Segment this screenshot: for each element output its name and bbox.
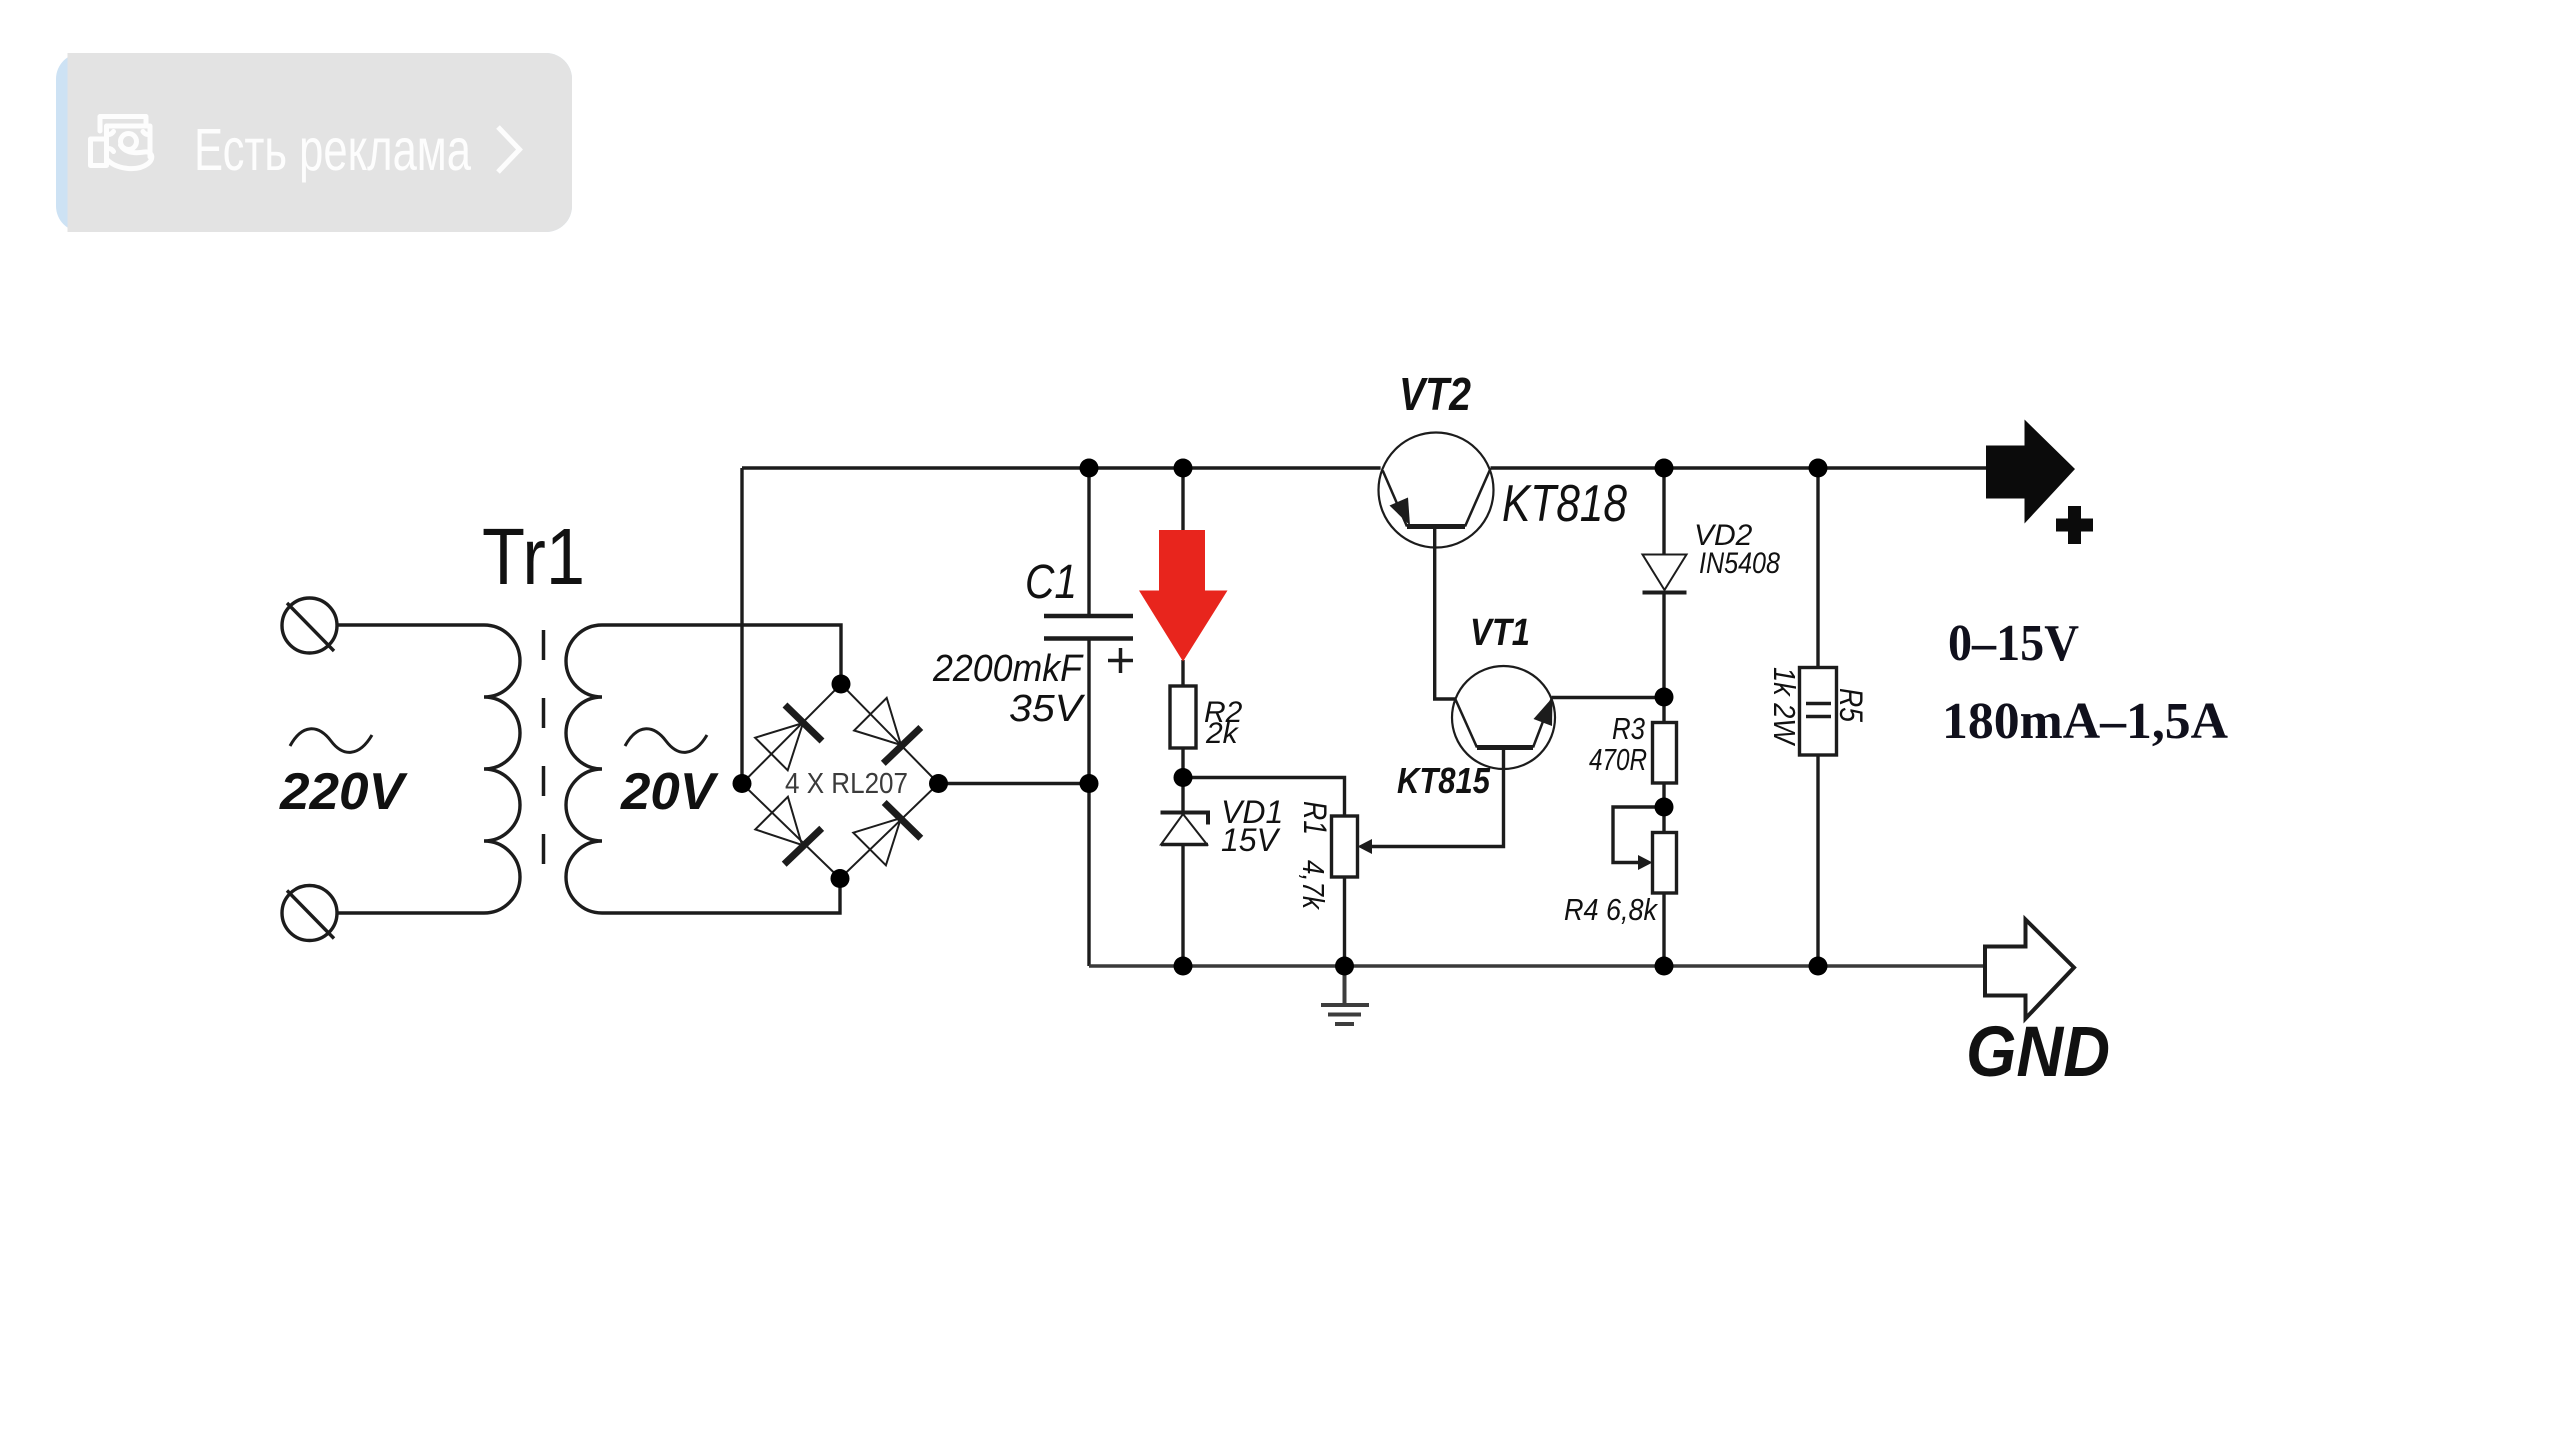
output GND arrow — [1985, 920, 2074, 1019]
tilde secondary — [625, 729, 707, 753]
terminal X2 bottom-left — [282, 886, 337, 941]
zener diode VD1 — [1161, 813, 1209, 845]
transistor VT1 circle — [1452, 666, 1555, 769]
svg-text:R5: R5 — [1833, 688, 1869, 722]
svg-text:R1: R1 — [1297, 801, 1333, 835]
bridge rectifier diamond — [742, 684, 939, 879]
VT2 collector diagonal — [1465, 469, 1490, 527]
svg-text:Tr1: Tr1 — [482, 512, 585, 601]
svg-text:VT2: VT2 — [1399, 368, 1471, 420]
wire top rail to red arrow — [1181, 468, 1184, 531]
svg-text:2k: 2k — [1205, 717, 1240, 750]
VT2 base bar — [1407, 524, 1465, 529]
svg-text:Есть реклама: Есть реклама — [194, 117, 471, 183]
wire R4 to ground rail — [1662, 893, 1665, 966]
transformer Tr1 secondary winding — [566, 625, 602, 913]
bridge diode D1 top-left — [755, 705, 822, 770]
svg-text:20V: 20V — [620, 763, 719, 821]
R4 wiper arrow — [1638, 855, 1653, 870]
VT2 emitter diagonal — [1383, 471, 1407, 527]
plus sign — [2056, 506, 2093, 544]
wire C1 top lead — [1087, 468, 1090, 616]
wire R1 wiper to VT1 base — [1372, 750, 1504, 847]
svg-text:470R: 470R — [1589, 742, 1647, 777]
ad banner money-in-hand icon — [91, 117, 152, 169]
tilde primary — [290, 729, 372, 753]
ad banner chevron — [498, 127, 520, 172]
svg-text:4 X RL207: 4 X RL207 — [785, 768, 908, 800]
wire R5 to ground rail — [1816, 755, 1819, 966]
svg-text:220V: 220V — [279, 763, 408, 821]
wire VD2 to node — [1662, 593, 1665, 723]
svg-text:C1: C1 — [1025, 556, 1077, 609]
wire top rail to VD2 — [1662, 468, 1665, 554]
bridge diode D2 top-right — [854, 698, 921, 763]
potentiometer R1 — [1332, 816, 1358, 877]
VT1 collector diagonal — [1455, 699, 1477, 747]
svg-text:KT815: KT815 — [1397, 760, 1491, 801]
wire primary top — [337, 623, 484, 626]
svg-text:2200mkF: 2200mkF — [932, 648, 1084, 690]
R1 wiper arrow — [1358, 839, 1373, 854]
capacitor C1 plates — [1044, 616, 1133, 639]
diode VD2 — [1643, 555, 1687, 593]
bridge diode D3 bottom-left — [755, 797, 821, 864]
transistor VT2 circle — [1379, 433, 1494, 548]
wire VD1 to ground rail — [1181, 845, 1184, 966]
svg-text:GND: GND — [1966, 1013, 2110, 1092]
wire VT1 emitter to VD2 node — [1552, 696, 1664, 699]
resistor R5 — [1800, 668, 1837, 756]
resistor R2 — [1170, 686, 1196, 748]
svg-text:4,7k: 4,7k — [1296, 860, 1331, 910]
wire DC+ riser to top rail — [740, 468, 743, 784]
svg-text:15V: 15V — [1221, 822, 1281, 858]
transformer core — [542, 630, 546, 899]
VT2 emitter arrow — [1390, 498, 1411, 526]
svg-text:VT1: VT1 — [1470, 612, 1530, 654]
wire red arrow tip to R2 — [1181, 660, 1184, 686]
VT1 emitter diagonal — [1533, 699, 1552, 748]
wire R2 to VD1 node — [1181, 748, 1184, 812]
wire R1 bottom to ground rail — [1343, 877, 1346, 966]
wire bridge right output — [939, 782, 1090, 785]
wire VT2 base to VT1 — [1435, 529, 1456, 699]
wire secondary top to bridge — [602, 625, 841, 684]
wire primary bottom — [337, 911, 484, 914]
R4 wiper loop — [1613, 807, 1664, 863]
svg-text:R3: R3 — [1612, 711, 1645, 746]
wire top rail right — [1491, 466, 1987, 469]
ground symbol — [1321, 966, 1369, 1024]
svg-text:0–15V: 0–15V — [1948, 615, 2079, 672]
junction dots — [733, 459, 1828, 976]
wire secondary bottom to bridge — [602, 879, 840, 914]
bridge diode D4 bottom-right — [853, 803, 921, 866]
VT1 emitter arrow — [1534, 698, 1553, 727]
output plus arrow — [1986, 420, 2075, 524]
potentiometer R4 — [1653, 833, 1677, 894]
wire C1 bottom lead — [1087, 639, 1090, 967]
VT1 base bar — [1477, 745, 1533, 750]
wire R3 to R4 — [1662, 783, 1665, 833]
svg-text:KT818: KT818 — [1502, 475, 1627, 533]
wire VD1 node to R1 — [1183, 778, 1345, 817]
ad banner background — [56, 53, 572, 232]
C1 plus sign — [1108, 648, 1133, 673]
red fault arrow — [1139, 530, 1228, 662]
svg-text:R4 6,8k: R4 6,8k — [1564, 892, 1658, 927]
transformer Tr1 primary winding — [484, 625, 520, 913]
terminal X1 top-left — [282, 598, 337, 653]
wire top rail to R5 — [1816, 468, 1819, 668]
wire top rail left — [742, 466, 1381, 469]
resistor R3 — [1653, 723, 1677, 784]
svg-text:1k 2W: 1k 2W — [1767, 667, 1802, 746]
svg-text:IN5408: IN5408 — [1699, 547, 1780, 580]
svg-text:35V: 35V — [1009, 688, 1086, 730]
svg-text:180mA–1,5A: 180mA–1,5A — [1942, 693, 2228, 750]
wire bottom ground rail — [1089, 964, 1985, 967]
